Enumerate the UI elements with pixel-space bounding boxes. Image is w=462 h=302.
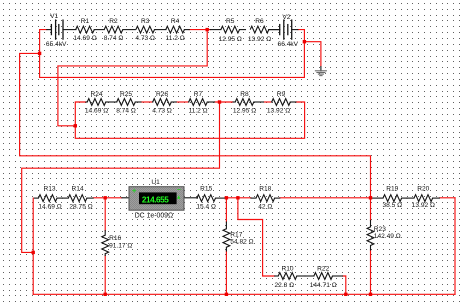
svg-text:R26: R26 xyxy=(156,91,168,98)
svg-text:13.92 Ω: 13.92 Ω xyxy=(248,36,271,43)
svg-text:R2: R2 xyxy=(109,18,118,25)
svg-text:R16: R16 xyxy=(109,235,121,242)
svg-text:R24: R24 xyxy=(90,91,102,98)
svg-text:R3: R3 xyxy=(141,18,150,25)
wire V1 negative stub xyxy=(40,30,47,54)
wire row2 R8-R9 xyxy=(264,101,272,103)
resistor R3 xyxy=(136,26,166,33)
resistor R16 xyxy=(102,231,109,256)
svg-text:38.5 Ω: 38.5 Ω xyxy=(382,202,402,209)
wire R16 top xyxy=(104,198,106,231)
wire bottom rail xyxy=(33,293,455,295)
svg-text:13.92 Ω: 13.92 Ω xyxy=(412,202,435,209)
multimeter U1 xyxy=(122,187,197,211)
svg-text:R4: R4 xyxy=(171,18,180,25)
svg-text:DC 1e-009Ω: DC 1e-009Ω xyxy=(135,213,173,220)
resistor R10 xyxy=(275,273,305,280)
svg-text:R8: R8 xyxy=(240,91,249,98)
svg-text:22.8 Ω: 22.8 Ω xyxy=(274,282,294,289)
svg-text:R1: R1 xyxy=(81,18,90,25)
svg-text:65.4kV: 65.4kV xyxy=(46,41,67,48)
resistor R18 xyxy=(251,195,280,202)
junction bottom-left node xyxy=(32,251,35,254)
wire net-B row2 loop xyxy=(75,102,304,138)
junction R15/R17 node xyxy=(225,196,228,199)
resistor R8 xyxy=(233,99,264,106)
wire R16 bottom xyxy=(104,256,106,295)
svg-text:142.49 Ω: 142.49 Ω xyxy=(374,233,401,240)
wire branch to R10 row xyxy=(238,198,275,276)
resistor R26 xyxy=(153,99,177,106)
svg-text:V2: V2 xyxy=(282,14,290,21)
wire net-A left rail to R19/R23 node xyxy=(20,53,371,197)
svg-text:R9: R9 xyxy=(277,91,286,98)
svg-text:14.69 Ω: 14.69 Ω xyxy=(85,107,108,114)
svg-text:U1: U1 xyxy=(151,179,160,186)
resistor R9 xyxy=(272,99,296,106)
svg-text:54.82 Ω: 54.82 Ω xyxy=(230,238,253,245)
resistor R17 xyxy=(223,222,230,251)
wire right rail xyxy=(454,198,456,294)
svg-text:R22: R22 xyxy=(317,265,329,272)
resistor R7 xyxy=(189,99,215,106)
wire row2 R7-R8 node xyxy=(215,101,234,103)
wire R23 top xyxy=(370,198,372,221)
resistor R23 xyxy=(367,221,374,251)
wire R17 bottom xyxy=(225,251,227,294)
svg-text:R20: R20 xyxy=(417,186,429,193)
junction R17/rail xyxy=(225,293,228,296)
resistor R6 xyxy=(250,26,280,33)
junction R4/R5 node xyxy=(206,28,209,31)
wire R23 bottom xyxy=(370,250,372,294)
svg-text:66.4kV: 66.4kV xyxy=(278,41,299,48)
svg-text:R10: R10 xyxy=(281,265,293,272)
battery V1 xyxy=(47,20,76,39)
svg-text:R19: R19 xyxy=(386,186,398,193)
wire row3 R15 to R18 xyxy=(225,197,251,199)
wire R17 top xyxy=(225,198,227,222)
svg-text:214.655: 214.655 xyxy=(142,196,169,205)
wire row2 R26-R7 xyxy=(176,101,188,103)
svg-text:4.73 Ω: 4.73 Ω xyxy=(152,107,172,114)
junction R7/R8 node xyxy=(218,100,221,103)
svg-text:12.95 Ω: 12.95 Ω xyxy=(233,107,256,114)
wire row1 mid (R4-R5) xyxy=(189,29,210,31)
wire net-A lower rail to V2 xyxy=(40,42,305,78)
svg-text:13.92 Ω: 13.92 Ω xyxy=(267,107,290,114)
wire net-C from R7/R8 node xyxy=(22,102,220,252)
resistor R25 xyxy=(107,99,141,106)
resistor R4 xyxy=(166,26,190,33)
svg-text:R18: R18 xyxy=(259,186,271,193)
resistor R20 xyxy=(407,195,440,202)
resistor R24 xyxy=(86,99,107,106)
svg-text:8.74 Ω: 8.74 Ω xyxy=(104,35,124,42)
svg-text:15.4 Ω: 15.4 Ω xyxy=(196,204,216,211)
svg-text:42 Ω: 42 Ω xyxy=(258,204,272,211)
junction R23/rail xyxy=(369,293,372,296)
junction R22/rail xyxy=(344,293,347,296)
wire row3 left drop xyxy=(32,198,34,294)
wire row3 R14 to U1 xyxy=(93,197,122,199)
svg-text:28.75 Ω: 28.75 Ω xyxy=(69,204,92,211)
svg-text:R5: R5 xyxy=(226,18,235,25)
svg-text:R6: R6 xyxy=(255,18,264,25)
resistor R19 xyxy=(372,195,408,202)
resistor R14 xyxy=(63,195,94,202)
junction R15/R10-branch node xyxy=(236,196,239,199)
resistor R1 xyxy=(76,26,105,33)
wire V2 positive stub xyxy=(298,30,305,42)
svg-text:R25: R25 xyxy=(120,91,132,98)
resistor R22 xyxy=(305,273,343,280)
wire row3 R18 to node J2 xyxy=(280,197,371,199)
svg-text:11.2 Ω: 11.2 Ω xyxy=(188,107,207,114)
resistor R15 xyxy=(197,195,225,202)
svg-text:91.17 Ω: 91.17 Ω xyxy=(109,242,132,249)
junction U1/R16 node xyxy=(104,196,107,199)
wire R20 to right rail xyxy=(440,197,456,199)
battery V2 xyxy=(269,20,298,39)
svg-text:R7: R7 xyxy=(194,91,203,98)
svg-text:144.71 Ω: 144.71 Ω xyxy=(310,282,337,289)
wire row2 R25-R26 xyxy=(141,101,153,103)
resistor R5 xyxy=(210,26,245,33)
junction R19/R23 node xyxy=(369,196,372,199)
svg-text:R15: R15 xyxy=(200,186,212,193)
wire net-B descent xyxy=(58,30,207,126)
svg-text:11.2 Ω: 11.2 Ω xyxy=(166,35,185,42)
junction row2 left node xyxy=(74,124,77,127)
wire to ground xyxy=(304,42,321,67)
wire R22 to bottom rail xyxy=(343,276,346,294)
svg-text:14.69 Ω: 14.69 Ω xyxy=(38,204,61,211)
svg-text:V1: V1 xyxy=(50,13,58,20)
svg-text:R14: R14 xyxy=(72,186,84,193)
svg-text:4.73 Ω: 4.73 Ω xyxy=(135,35,155,42)
junction V2/ground node xyxy=(303,40,306,43)
junction V1-left net xyxy=(38,52,41,55)
junction R16/rail xyxy=(104,293,107,296)
svg-text:12.95 Ω: 12.95 Ω xyxy=(219,36,242,43)
svg-text:14.69 Ω: 14.69 Ω xyxy=(73,35,96,42)
svg-text:R13: R13 xyxy=(43,186,55,193)
resistor R2 xyxy=(104,26,135,33)
ground xyxy=(315,67,326,76)
resistor R13 xyxy=(34,195,62,202)
svg-text:8.74 Ω: 8.74 Ω xyxy=(116,107,136,114)
